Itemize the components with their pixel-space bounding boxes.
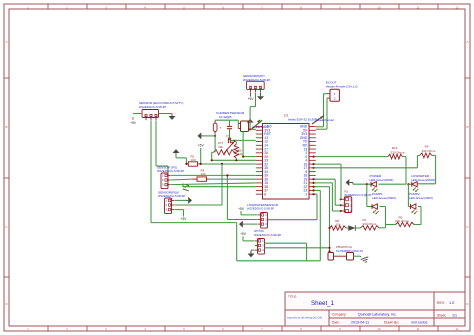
svg-text:WJ2EDGVC-5.08-3P: WJ2EDGVC-5.08-3P <box>157 169 184 173</box>
svg-text:LED-Green(0603): LED-Green(0603) <box>409 196 433 200</box>
svg-text:LED-Green(0603): LED-Green(0603) <box>372 196 396 200</box>
svg-text:HeaderFema2: HeaderFema2 <box>316 118 334 122</box>
svg-text:WJ2EDGVC-5.08-3P: WJ2EDGVC-5.08-3P <box>247 206 274 210</box>
svg-text:hellas ESP-32 DL30P: hellas ESP-32 DL30P <box>288 118 317 122</box>
svg-text:easyeda.qs-lab.design/a1x2dk: easyeda.qs-lab.design/a1x2dk <box>287 316 323 320</box>
svg-text:B: B <box>466 125 468 129</box>
svg-text:330 Ohms: 330 Ohms <box>391 150 405 154</box>
svg-text:+5V: +5V <box>248 97 255 101</box>
svg-text:REV:: REV: <box>437 301 445 305</box>
svg-text:+5V: +5V <box>198 144 205 148</box>
svg-text:WJ2EDGVC-5.08-3P: WJ2EDGVC-5.08-3P <box>344 193 371 197</box>
svg-text:TITLE:: TITLE: <box>288 295 297 299</box>
svg-text:F2-32@B: F2-32@B <box>219 115 231 119</box>
svg-text:1u: 1u <box>226 133 230 137</box>
svg-text:+5V: +5V <box>130 121 137 125</box>
svg-text:Sheet_1: Sheet_1 <box>311 300 335 307</box>
svg-text:A: A <box>5 40 7 44</box>
svg-text:HeaderPinc1: HeaderPinc1 <box>252 125 269 129</box>
svg-text:10k: 10k <box>218 145 223 149</box>
svg-text:WJ2EDGVC-5.08-3P: WJ2EDGVC-5.08-3P <box>254 233 281 237</box>
svg-text:B: B <box>5 125 7 129</box>
svg-text:Sheet:: Sheet: <box>437 314 446 318</box>
svg-text:Drawn By:: Drawn By: <box>384 321 399 325</box>
svg-text:2019-04-11: 2019-04-11 <box>351 321 369 325</box>
svg-text:WJ2EDGVC-5.08-3P: WJ2EDGVC-5.08-3P <box>139 105 166 109</box>
svg-text:LED-Green(0603): LED-Green(0603) <box>370 178 394 182</box>
svg-text:LED-Green(0603): LED-Green(0603) <box>411 178 435 182</box>
svg-text:Company:: Company: <box>332 313 347 317</box>
svg-text:+5V: +5V <box>238 207 245 211</box>
svg-text:330 Ohms: 330 Ohms <box>422 149 436 153</box>
svg-text:8: 8 <box>264 192 266 196</box>
svg-text:WJ2EDGVC-5.08-3P: WJ2EDGVC-5.08-3P <box>158 194 185 198</box>
svg-text:330 Ohms: 330 Ohms <box>363 222 377 226</box>
svg-text:10k: 10k <box>238 152 243 156</box>
svg-text:Header-Female-2.54_1x2: Header-Female-2.54_1x2 <box>326 84 358 88</box>
svg-text:+5V: +5V <box>240 232 247 236</box>
svg-text:+: + <box>219 126 221 130</box>
svg-text:+5V: +5V <box>181 217 188 221</box>
svg-text:A: A <box>466 40 468 44</box>
svg-text:Quinosil Laboratory, Inc.: Quinosil Laboratory, Inc. <box>358 313 397 317</box>
svg-text:R9: R9 <box>425 144 429 148</box>
svg-text:Date:: Date: <box>332 321 340 325</box>
svg-text:mnl.rosios: mnl.rosios <box>411 321 428 325</box>
svg-text:10k: 10k <box>336 222 341 226</box>
svg-text:2: 2 <box>305 192 307 196</box>
svg-text:1.0: 1.0 <box>449 301 454 305</box>
svg-text:1/1: 1/1 <box>452 314 457 318</box>
